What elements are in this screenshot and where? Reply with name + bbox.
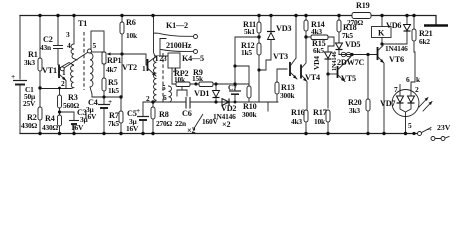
svg-text:K4—5: K4—5 xyxy=(182,54,204,63)
diode VD1 xyxy=(215,84,217,90)
wire left rail xyxy=(19,16,21,134)
svg-text:1: 1 xyxy=(142,64,146,73)
svg-text:R17: R17 xyxy=(313,108,327,117)
capacitor C4 xyxy=(103,97,105,104)
diode VD5 xyxy=(336,43,343,49)
svg-text:430Ω: 430Ω xyxy=(42,123,58,132)
svg-text:5: 5 xyxy=(93,41,97,50)
svg-text:23V: 23V xyxy=(437,123,451,132)
svg-text:2DW7C: 2DW7C xyxy=(337,58,364,67)
resistor R10 xyxy=(235,66,249,102)
wire bottom rail xyxy=(20,133,417,135)
svg-text:16V: 16V xyxy=(84,112,97,121)
diode VD6 xyxy=(406,16,408,25)
transistor VT2 xyxy=(147,59,149,71)
transistor VT1 xyxy=(58,65,60,79)
svg-text:4k7: 4k7 xyxy=(106,65,117,74)
svg-text:10k: 10k xyxy=(174,75,186,84)
ground xyxy=(424,24,448,27)
svg-text:4: 4 xyxy=(67,41,71,50)
svg-text:VD6: VD6 xyxy=(386,21,401,30)
svg-text:R4: R4 xyxy=(45,114,55,123)
transistor VT5 xyxy=(328,73,337,75)
resistor R13 xyxy=(277,69,287,102)
optocoupler VD7 xyxy=(392,90,419,117)
resistor R14 xyxy=(305,16,307,38)
capacitor C3 xyxy=(60,112,75,120)
AC input xyxy=(418,132,422,136)
svg-text:VD5: VD5 xyxy=(345,40,360,49)
svg-text:VT4: VT4 xyxy=(305,73,320,82)
svg-text:22n: 22n xyxy=(175,119,186,128)
svg-text:R8: R8 xyxy=(159,110,169,119)
resistor R18 xyxy=(338,16,340,43)
svg-text:RP1: RP1 xyxy=(107,56,122,65)
resistor R16 xyxy=(304,110,308,122)
svg-text:C6: C6 xyxy=(182,109,192,118)
resistor R20 xyxy=(367,55,369,134)
switch K1-2 xyxy=(154,16,194,57)
transistor VT4 xyxy=(300,65,302,79)
transistor VT3 xyxy=(295,16,297,59)
svg-text:1k5: 1k5 xyxy=(241,48,252,57)
wire signal xyxy=(153,101,278,103)
resistor R21 xyxy=(411,16,415,91)
resistor R2 xyxy=(38,107,42,120)
diode VD2 xyxy=(222,99,229,106)
svg-text:43n: 43n xyxy=(40,43,51,52)
resistor R4 xyxy=(58,115,62,126)
resistor R8 xyxy=(152,102,154,134)
transistor VT6 xyxy=(377,47,379,60)
svg-text:→: → xyxy=(425,124,433,133)
relay contact K1-1 xyxy=(88,49,92,53)
svg-text:10k: 10k xyxy=(126,31,138,40)
switch K4-5 xyxy=(161,50,193,52)
svg-text:3k3: 3k3 xyxy=(349,106,360,115)
svg-text:VD7: VD7 xyxy=(380,99,395,108)
svg-text:270Ω: 270Ω xyxy=(156,119,172,128)
capacitor C5 xyxy=(143,102,153,116)
wire branch xyxy=(235,37,259,102)
capacitor C6 xyxy=(186,97,190,109)
core T1 xyxy=(83,32,85,90)
svg-text:×2: ×2 xyxy=(187,126,195,135)
svg-text:25V: 25V xyxy=(23,99,36,108)
svg-text:15k: 15k xyxy=(192,74,204,83)
diode VD3 xyxy=(270,16,272,32)
svg-text:6k5: 6k5 xyxy=(313,46,324,55)
svg-text:1N4146: 1N4146 xyxy=(385,44,408,53)
svg-text:16V: 16V xyxy=(71,123,84,132)
svg-text:2: 2 xyxy=(61,79,65,88)
svg-text:R19: R19 xyxy=(356,1,370,10)
svg-text:4k3: 4k3 xyxy=(291,117,302,126)
svg-text:7k5: 7k5 xyxy=(342,31,353,40)
svg-text:16V: 16V xyxy=(126,124,139,133)
oscillator 2100Hz xyxy=(160,39,166,57)
svg-text:VT2: VT2 xyxy=(122,63,137,72)
svg-text:7k5: 7k5 xyxy=(108,119,119,128)
svg-text:VD3: VD3 xyxy=(276,24,291,33)
LED arrows xyxy=(419,98,432,112)
relay K xyxy=(372,27,392,38)
winding T1 secondary xyxy=(91,31,104,52)
svg-text:430Ω: 430Ω xyxy=(21,121,37,130)
resistor R7 xyxy=(120,97,122,134)
potentiometer RP1 xyxy=(102,52,106,64)
svg-text:3: 3 xyxy=(66,30,70,39)
svg-text:K1—2: K1—2 xyxy=(166,21,188,30)
svg-text:×2: ×2 xyxy=(222,120,230,129)
svg-text:R16: R16 xyxy=(291,108,305,117)
svg-text:K: K xyxy=(378,29,385,38)
resistor R3 xyxy=(59,89,61,134)
svg-text:3: 3 xyxy=(163,54,167,63)
svg-text:300k: 300k xyxy=(242,110,257,119)
capacitor C1 xyxy=(13,80,27,82)
svg-text:T1: T1 xyxy=(78,19,87,28)
svg-text:R6: R6 xyxy=(126,18,136,27)
wire stub xyxy=(267,102,269,111)
svg-text:+: + xyxy=(11,72,15,81)
resistor R11 xyxy=(258,16,260,44)
svg-text:VD1: VD1 xyxy=(194,89,209,98)
svg-text:5k1: 5k1 xyxy=(244,27,255,36)
svg-text:300k: 300k xyxy=(280,91,295,100)
svg-text:VT1: VT1 xyxy=(42,66,57,75)
resistor R17 xyxy=(326,110,330,122)
wire zener node xyxy=(339,54,377,56)
svg-text:T2: T2 xyxy=(154,54,163,63)
resistor R9 xyxy=(199,82,213,87)
svg-text:3k3: 3k3 xyxy=(24,58,35,67)
svg-text:VD4: VD4 xyxy=(312,56,321,70)
resistor R6 xyxy=(121,16,123,98)
diode VD4 xyxy=(327,46,329,52)
svg-text:6k2: 6k2 xyxy=(419,37,430,46)
wire top rail xyxy=(20,16,436,26)
svg-text:5: 5 xyxy=(408,121,412,130)
svg-text:VT6: VT6 xyxy=(389,55,404,64)
resistor R1 xyxy=(39,16,41,134)
zener 2DW7C xyxy=(341,52,345,56)
svg-text:2: 2 xyxy=(415,85,419,94)
svg-text:5: 5 xyxy=(162,83,166,92)
svg-text:6: 6 xyxy=(163,93,167,102)
capacitor C2 xyxy=(57,16,59,46)
potentiometer RP2 xyxy=(172,83,249,85)
capacitor C7 xyxy=(229,90,241,92)
svg-text:10k: 10k xyxy=(314,117,326,126)
svg-text:1k5: 1k5 xyxy=(108,86,119,95)
resistor R12 xyxy=(257,43,261,55)
svg-text:2100Hz: 2100Hz xyxy=(166,41,192,50)
wire node xyxy=(92,96,121,98)
svg-text:7: 7 xyxy=(394,85,398,94)
resistor R15 xyxy=(306,37,334,46)
svg-text:+: + xyxy=(108,97,112,106)
svg-text:+: + xyxy=(136,106,140,115)
svg-text:VT3: VT3 xyxy=(273,52,288,61)
svg-text:6: 6 xyxy=(406,75,410,84)
resistor R5 xyxy=(103,64,105,97)
resistor R19 xyxy=(352,13,371,19)
wire base bias xyxy=(40,88,71,90)
svg-text:VT5: VT5 xyxy=(341,74,356,83)
